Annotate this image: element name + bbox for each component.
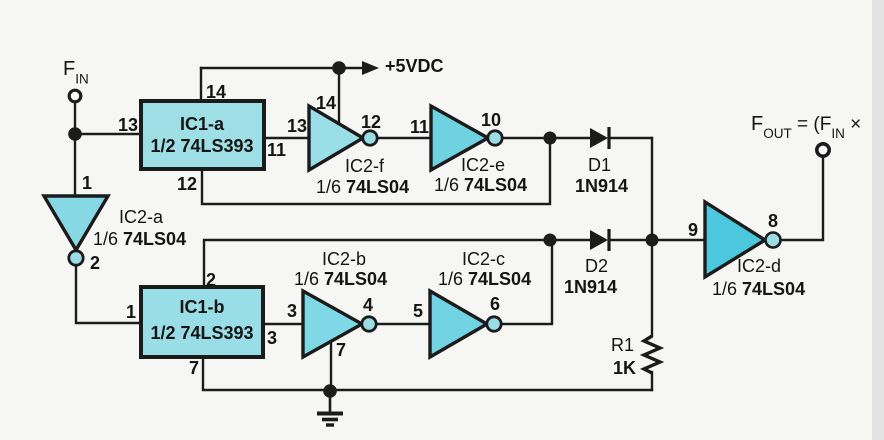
svg-text:1N914: 1N914: [575, 176, 628, 196]
svg-text:1K: 1K: [613, 358, 636, 378]
diode D1 1N914: [590, 127, 609, 149]
svg-text:12: 12: [177, 174, 197, 194]
svg-text:12: 12: [361, 112, 381, 132]
svg-text:13: 13: [287, 116, 307, 136]
svg-text:IC2-f: IC2-f: [345, 156, 385, 176]
wire IC1-b out to IC2-b: [263, 323, 303, 325]
svg-text:1/2 74LS393: 1/2 74LS393: [150, 136, 253, 156]
inverter IC2-f: [309, 106, 377, 170]
wire IC1-a pin12 feedback: [202, 138, 550, 204]
wire D1 corner down to node: [651, 138, 653, 240]
node +5V junction: [332, 61, 346, 75]
svg-text:R1: R1: [611, 335, 634, 355]
node D2 row junction: [544, 234, 557, 247]
svg-text:1: 1: [126, 302, 136, 322]
node ground junction: [323, 384, 337, 398]
wire F_IN vertical: [74, 102, 76, 196]
svg-text:1/6 74LS04: 1/6 74LS04: [294, 269, 387, 289]
svg-text:10: 10: [481, 110, 501, 130]
node diode summing junction: [646, 234, 659, 247]
svg-text:1/6 74LS04: 1/6 74LS04: [316, 177, 409, 197]
ground: [317, 391, 343, 425]
wire +5V rail: [201, 67, 362, 69]
svg-text:2: 2: [90, 253, 100, 273]
inverter IC2-e: [431, 106, 502, 170]
IC1-b 1/2 74LS393: [141, 287, 263, 357]
svg-text:+5VDC: +5VDC: [385, 56, 444, 76]
svg-text:3: 3: [267, 328, 277, 348]
svg-text:13: 13: [118, 115, 138, 135]
wire IC2-c out up to node: [501, 240, 552, 324]
svg-text:IC2-b: IC2-b: [322, 249, 366, 269]
svg-text:7: 7: [336, 340, 346, 360]
wire F_IN to IC1-a pin13: [75, 133, 141, 135]
svg-text:11: 11: [267, 140, 286, 160]
inverter IC2-a: [44, 196, 108, 265]
svg-text:1/6 74LS04: 1/6 74LS04: [434, 175, 527, 195]
wire IC1-a pin14 riser: [200, 68, 202, 101]
node D1 output junction: [544, 132, 557, 145]
node F_IN junction: [68, 127, 82, 141]
wire R1 bottom to rail: [651, 372, 653, 390]
wire IC2-b out to IC2-c: [376, 323, 430, 325]
svg-text:4: 4: [363, 295, 373, 315]
wire IC1-a out to IC2-f: [264, 137, 309, 139]
wire IC2-b pin7 down: [330, 342, 332, 391]
svg-text:1: 1: [82, 173, 92, 193]
svg-text:9: 9: [688, 220, 698, 240]
wire D2 to IC2-d pin9: [610, 239, 705, 241]
svg-text:1/6 74LS04: 1/6 74LS04: [712, 279, 805, 299]
svg-text:D2: D2: [585, 256, 608, 276]
svg-text:1/6 74LS04: 1/6 74LS04: [93, 229, 186, 249]
inverter IC2-b: [303, 291, 376, 357]
svg-text:IC2-c: IC2-c: [462, 249, 505, 269]
IC1-a 1/2 74LS393: [141, 101, 264, 169]
wire IC2-d out to F_OUT: [781, 157, 823, 240]
svg-text:14: 14: [206, 82, 226, 102]
wire IC1-b pin7 to bottom rail: [203, 357, 652, 390]
svg-text:14: 14: [316, 93, 336, 113]
wire node to R1: [651, 240, 653, 336]
svg-text:11: 11: [410, 117, 429, 137]
svg-text:1/2 74LS393: 1/2 74LS393: [150, 323, 253, 343]
svg-text:7: 7: [189, 358, 199, 378]
svg-text:8: 8: [768, 211, 778, 231]
inverter IC2-c: [430, 291, 501, 357]
svg-text:IC1-b: IC1-b: [180, 297, 225, 317]
svg-text:1N914: 1N914: [564, 277, 617, 297]
svg-text:D1: D1: [588, 155, 611, 175]
wire IC2-f out to IC2-e: [377, 137, 431, 139]
svg-text:IC1-a: IC1-a: [180, 114, 225, 134]
svg-text:3: 3: [287, 301, 297, 321]
wire D1 to corner: [610, 137, 652, 139]
svg-text:IC2-e: IC2-e: [461, 155, 505, 175]
svg-text:IC2-a: IC2-a: [119, 207, 164, 227]
svg-text:2: 2: [206, 270, 216, 290]
diode D2 1N914: [590, 229, 609, 251]
resistor R1 1K: [644, 336, 660, 373]
svg-text:IC2-d: IC2-d: [737, 256, 781, 276]
svg-text:1/6 74LS04: 1/6 74LS04: [438, 269, 531, 289]
wire pin2 feedback row: [204, 240, 590, 287]
svg-text:6: 6: [490, 294, 500, 314]
svg-text:5: 5: [413, 301, 423, 321]
wire IC2-a out to IC1-b pin1: [76, 266, 141, 323]
+5VDC arrow: [362, 61, 379, 75]
inverter IC2-d: [705, 202, 781, 277]
wire IC2-f pin14 riser: [338, 68, 340, 126]
wire IC2-e out to D1: [502, 137, 590, 139]
